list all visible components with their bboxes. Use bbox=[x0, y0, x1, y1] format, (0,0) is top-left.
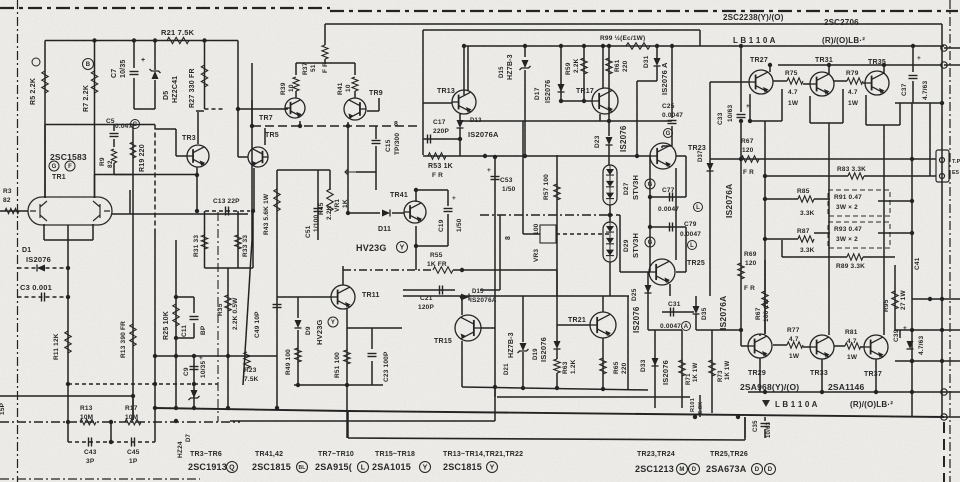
junction bbox=[910, 390, 914, 394]
resistor R25 bbox=[173, 304, 179, 326]
circle D bbox=[689, 464, 700, 475]
wire TR5 collector bbox=[264, 128, 266, 145]
wire bbox=[447, 190, 449, 206]
circle M bbox=[677, 464, 688, 475]
wire input stage top bbox=[45, 124, 155, 126]
junction bbox=[559, 99, 563, 103]
capacitor C19 bbox=[444, 208, 453, 210]
wire TR5 base bbox=[238, 156, 248, 158]
wire bbox=[744, 417, 746, 438]
wire D1 row bbox=[18, 267, 69, 269]
transistor TR29 bbox=[748, 334, 772, 358]
wire bbox=[650, 196, 686, 198]
circle Y2 bbox=[420, 462, 431, 473]
wire D21 column bbox=[522, 296, 524, 342]
junction bbox=[460, 268, 464, 272]
wire bbox=[324, 59, 326, 63]
diode D31 bbox=[654, 58, 661, 66]
junction bbox=[109, 440, 113, 444]
diode D23 bbox=[606, 137, 613, 145]
node output bbox=[941, 414, 947, 420]
transistor TR15 bbox=[455, 315, 481, 341]
capacitor C49 bbox=[273, 304, 282, 306]
wire y385 bbox=[294, 384, 383, 386]
wire C23 column bbox=[371, 328, 373, 349]
junction bbox=[648, 195, 652, 199]
junction bbox=[763, 237, 767, 241]
resistor R23 bbox=[244, 352, 250, 368]
wire bbox=[295, 63, 297, 75]
wire D5 bottom bbox=[154, 80, 156, 109]
transistor TR13 bbox=[452, 90, 476, 114]
resistor R9 bbox=[111, 149, 116, 163]
capacitor C25 bbox=[668, 120, 677, 122]
junction bbox=[693, 415, 697, 419]
wire TR23-TR25 base chain bbox=[649, 155, 651, 272]
wire bbox=[523, 233, 540, 235]
wire bbox=[346, 385, 348, 438]
resistor R65 bbox=[600, 358, 606, 374]
wire bbox=[912, 81, 914, 103]
wire bbox=[803, 83, 810, 85]
junction bbox=[748, 119, 752, 123]
resistor R53 bbox=[428, 153, 446, 159]
junction bbox=[940, 328, 944, 332]
wire feedback dashed bbox=[205, 210, 250, 212]
wire bbox=[930, 175, 936, 177]
capacitor C3 bbox=[41, 293, 43, 302]
capacitor C51 bbox=[314, 208, 323, 210]
wire bbox=[556, 373, 558, 388]
wire bbox=[764, 429, 766, 438]
junction bbox=[940, 101, 944, 105]
wire bbox=[662, 311, 694, 313]
transistor TR11 bbox=[331, 285, 355, 309]
resistor R63 bbox=[554, 359, 560, 373]
wire bbox=[676, 271, 686, 273]
circle BL bbox=[297, 462, 308, 473]
transistor TR25 bbox=[649, 259, 675, 285]
resistor R13 bbox=[80, 419, 96, 425]
capacitor C15 bbox=[372, 140, 381, 142]
wire x495 column bbox=[494, 157, 496, 421]
resistor R33 bbox=[235, 235, 241, 249]
wire oval emitter left bbox=[43, 224, 45, 240]
circle Y bbox=[397, 242, 408, 253]
wire bbox=[803, 346, 810, 348]
circle L bbox=[688, 241, 697, 250]
wire bbox=[636, 81, 638, 155]
wire +B rail y46 bbox=[464, 45, 944, 47]
wire rail y159 bbox=[710, 158, 936, 160]
wire bus y421 bbox=[230, 420, 495, 422]
wire D17 column bbox=[560, 46, 562, 101]
wire bbox=[864, 175, 930, 177]
junction bbox=[174, 419, 178, 423]
junction bbox=[601, 44, 605, 48]
wire bbox=[524, 46, 526, 57]
capacitor C bbox=[110, 133, 119, 135]
wire bbox=[297, 330, 299, 385]
wire bbox=[810, 122, 843, 124]
junction bbox=[195, 209, 199, 213]
wire TR17 collector bbox=[602, 46, 604, 88]
resistor R89 bbox=[847, 254, 863, 260]
wire 15P line bbox=[0, 395, 133, 397]
junction bbox=[582, 99, 586, 103]
wire C3 row bbox=[18, 296, 69, 298]
resistor R19 bbox=[130, 142, 136, 158]
wire bbox=[671, 126, 673, 146]
junction bbox=[763, 174, 767, 178]
diode D15 bbox=[461, 294, 469, 301]
wire bbox=[354, 63, 356, 75]
junction bbox=[910, 231, 914, 235]
wire bottom bus y408 a bbox=[155, 408, 348, 411]
wire bbox=[662, 145, 672, 147]
circle A bbox=[682, 322, 691, 331]
junction bbox=[940, 297, 944, 301]
junction bbox=[460, 295, 464, 299]
resistor R57 bbox=[554, 184, 560, 200]
wire bbox=[650, 226, 686, 228]
wire TR35 emitter bbox=[865, 95, 867, 125]
wire bbox=[750, 120, 782, 122]
junction bbox=[874, 390, 878, 394]
junction bbox=[910, 359, 914, 363]
junction bbox=[226, 406, 230, 410]
wire y299 bbox=[912, 298, 960, 300]
junction bbox=[174, 406, 178, 410]
wire right box edge bbox=[941, 24, 943, 417]
junction bbox=[226, 354, 230, 358]
junction bbox=[493, 385, 497, 389]
resistor R77 bbox=[787, 342, 803, 348]
wire y296 bbox=[403, 295, 629, 297]
junction bbox=[739, 119, 743, 123]
junction bbox=[153, 406, 157, 410]
junction bbox=[768, 63, 772, 67]
junction bbox=[66, 266, 70, 270]
zener diode D21 bbox=[520, 343, 527, 351]
wire bbox=[44, 125, 46, 199]
circle B bbox=[83, 59, 94, 70]
wire TR31 collector bbox=[828, 65, 830, 74]
wire TR17 emitter bbox=[599, 114, 601, 121]
wire bbox=[295, 91, 297, 98]
circle Y3 bbox=[487, 462, 498, 473]
wire bbox=[863, 82, 865, 84]
wire TR25 emitter bbox=[669, 284, 671, 296]
junction bbox=[582, 44, 586, 48]
junction bbox=[298, 124, 302, 128]
wire bbox=[129, 190, 131, 214]
diode D1 bbox=[37, 265, 45, 272]
wire R31 column bbox=[204, 211, 206, 268]
capacitor C7 bbox=[130, 71, 139, 73]
resistor R45 bbox=[327, 189, 333, 211]
wire TR9 emitter down bbox=[347, 122, 349, 213]
capacitor C35 bbox=[761, 423, 770, 425]
wire R39-R41 top bbox=[296, 62, 355, 64]
wire bbox=[834, 80, 847, 82]
wire bbox=[656, 66, 658, 81]
wire TR31 emitter bbox=[809, 96, 811, 123]
junction bbox=[910, 199, 914, 203]
circle D3 bbox=[765, 464, 776, 475]
wire D9 column bbox=[297, 297, 299, 318]
wire TR17 base wire bbox=[561, 100, 592, 102]
junction bbox=[414, 244, 418, 248]
wire bbox=[866, 124, 900, 126]
wire bbox=[463, 46, 465, 95]
wire TR35 collector bbox=[883, 65, 885, 73]
wiper arrow VR1 bbox=[345, 169, 356, 175]
wire bbox=[685, 227, 687, 272]
junction bbox=[462, 44, 466, 48]
wire y397 bbox=[497, 396, 690, 398]
diode stack D27 STV3H bbox=[603, 165, 617, 205]
capacitor C17 bbox=[427, 135, 429, 144]
zener diode D5 bbox=[152, 71, 159, 79]
wire bbox=[647, 272, 649, 330]
wire bbox=[378, 98, 380, 111]
resistor R5 bbox=[42, 71, 48, 93]
wire bus y438 bbox=[348, 438, 745, 440]
frame top dash-dot line right bbox=[330, 10, 958, 12]
capacitor C39 mark bbox=[907, 341, 914, 349]
frame top dash-dot line left bbox=[0, 7, 330, 9]
junction bbox=[66, 420, 70, 424]
wire bbox=[842, 89, 844, 123]
wire TR37 down bbox=[875, 359, 877, 392]
wire to D11 bbox=[350, 212, 380, 214]
wire x133 long column bbox=[132, 175, 134, 421]
resistor R39 bbox=[293, 77, 299, 91]
wire bbox=[277, 169, 330, 171]
wire bbox=[619, 215, 621, 272]
wire y126 dashed link bbox=[252, 125, 420, 127]
circle G bbox=[645, 179, 655, 189]
wire TR3 emitter bbox=[196, 167, 198, 211]
transistor TR31 bbox=[810, 72, 834, 96]
wire TR27 base bbox=[710, 81, 749, 83]
wire bbox=[648, 329, 682, 331]
junction bbox=[827, 63, 831, 67]
wire bbox=[878, 232, 912, 234]
wire bbox=[453, 269, 557, 271]
wire bbox=[609, 262, 611, 296]
junction bbox=[153, 382, 157, 386]
wire x277 column bbox=[276, 170, 278, 408]
junction bbox=[910, 157, 914, 161]
diode D33 bbox=[652, 358, 659, 366]
wire bbox=[67, 384, 69, 442]
resistor R11 bbox=[65, 331, 71, 353]
diode D17 bbox=[558, 84, 565, 92]
wire bbox=[155, 128, 176, 130]
dashed box R91 bbox=[828, 190, 890, 216]
wire bbox=[929, 103, 931, 176]
junction bbox=[346, 124, 350, 128]
wire y270 dash bbox=[343, 269, 433, 271]
wire bbox=[371, 361, 373, 385]
transistor TR33 bbox=[810, 335, 834, 359]
junction bbox=[192, 406, 196, 410]
wire bbox=[765, 175, 848, 177]
wire TR25 base bbox=[620, 271, 650, 273]
wire C25 column bbox=[671, 46, 673, 118]
wire x884 down bbox=[883, 125, 885, 335]
wire R9 bottom bbox=[113, 163, 115, 175]
wire R19 column bbox=[132, 125, 134, 175]
capacitor C77 bbox=[669, 193, 671, 202]
wire C19 top bbox=[416, 189, 448, 191]
junction bbox=[739, 44, 743, 48]
junction bbox=[670, 44, 674, 48]
junction bbox=[458, 137, 462, 141]
wire bbox=[609, 205, 611, 222]
wire box2 left drop bbox=[422, 30, 424, 155]
junction bbox=[911, 44, 915, 48]
transistor TR27 bbox=[749, 70, 773, 94]
wire y384 dashed bbox=[68, 383, 218, 385]
junction bbox=[66, 382, 70, 386]
transistor TR5 bbox=[248, 147, 268, 167]
wire under R9 bbox=[95, 174, 134, 176]
transistor TR35 bbox=[865, 71, 889, 95]
junction bbox=[739, 328, 743, 332]
circle L bbox=[694, 203, 703, 212]
resistor R87b bbox=[762, 291, 768, 309]
resistor R49 bbox=[295, 348, 301, 362]
wire bbox=[196, 110, 204, 112]
wire y356 bbox=[155, 355, 277, 357]
capacitor C21 bbox=[439, 286, 441, 295]
circle G bbox=[49, 161, 59, 171]
wire rail y65 bbox=[778, 64, 942, 66]
junction bbox=[131, 394, 135, 398]
wire R7 column bbox=[94, 41, 96, 199]
wire bbox=[459, 113, 461, 120]
wire C9 column bbox=[193, 356, 195, 408]
capacitor C33 bbox=[737, 114, 746, 116]
node bbox=[941, 62, 947, 68]
wire y121 rail bbox=[462, 120, 672, 122]
wire R95 column bbox=[894, 265, 896, 330]
junction bbox=[739, 157, 743, 161]
capacitor C11 BP bypass bbox=[176, 296, 194, 298]
wire TR9 base bbox=[367, 110, 379, 112]
wire bbox=[627, 296, 629, 389]
wire bbox=[814, 232, 830, 234]
wire input left bbox=[0, 210, 28, 212]
wire D23 column bbox=[608, 145, 610, 165]
wire R35 column bbox=[227, 268, 229, 408]
wire D31 column bbox=[656, 46, 658, 58]
resistor R83 bbox=[848, 173, 864, 179]
wire TR15 emitter bbox=[461, 341, 463, 387]
wire R59 column bbox=[583, 46, 585, 101]
wire TR29 emitter bbox=[759, 358, 761, 392]
wire box2 right drop bbox=[699, 30, 701, 46]
wire TR13 collector bbox=[467, 46, 469, 91]
wire TR15 collector bbox=[461, 297, 463, 315]
wire D19 column bbox=[556, 270, 558, 341]
circle L2 bbox=[358, 462, 369, 473]
junction bbox=[483, 154, 487, 158]
wire bbox=[522, 352, 524, 388]
wire box2 rail bbox=[423, 29, 700, 31]
junction bbox=[607, 119, 611, 123]
wire bbox=[740, 120, 742, 159]
wire TR7 emitter bbox=[299, 121, 301, 126]
junction bbox=[195, 173, 199, 177]
wire bbox=[347, 411, 349, 438]
transistor TR37 bbox=[864, 335, 888, 359]
wire bbox=[695, 296, 697, 306]
wire TR13 base bbox=[423, 102, 452, 104]
wire x710 column bbox=[709, 82, 711, 296]
dashed box R93 bbox=[828, 222, 890, 248]
wire bbox=[522, 215, 524, 234]
junction bbox=[192, 354, 196, 358]
resistor R67 bbox=[741, 156, 759, 162]
wire TR5 emitter down bbox=[253, 168, 255, 211]
wire bbox=[895, 102, 942, 104]
wire x238 column bbox=[237, 41, 239, 158]
resistor R35 bbox=[225, 295, 231, 311]
capacitor C23 bbox=[368, 353, 377, 355]
junction bbox=[635, 154, 639, 158]
capacitor C37 bbox=[909, 75, 918, 77]
wire bbox=[676, 155, 686, 157]
wire TR21 base bbox=[557, 324, 590, 326]
junction bbox=[910, 328, 914, 332]
wire TR7 base bbox=[238, 108, 288, 110]
wire bottom bus y408 b bbox=[348, 411, 944, 417]
wire x557 column bbox=[556, 155, 558, 296]
diode D25 bbox=[645, 285, 652, 293]
capacitor C9 bbox=[190, 366, 199, 368]
transistor TR21 bbox=[590, 312, 616, 338]
wire bbox=[861, 346, 864, 348]
circle Q bbox=[227, 462, 238, 473]
junction bbox=[559, 44, 563, 48]
junction bbox=[109, 420, 113, 424]
zener diode D7 bbox=[191, 390, 198, 398]
wire bbox=[416, 245, 448, 247]
wire bbox=[764, 417, 766, 421]
wire bbox=[834, 345, 845, 347]
wire R45 column bbox=[329, 170, 331, 190]
wire bbox=[130, 213, 248, 215]
wire R5 column bbox=[44, 41, 46, 199]
wire bbox=[899, 103, 901, 125]
capacitor C31 bbox=[670, 308, 672, 317]
capacitor C11 bbox=[190, 316, 199, 318]
junction bbox=[601, 387, 605, 391]
wire D33 column bbox=[654, 330, 656, 408]
wire C7 bottom bbox=[133, 78, 135, 109]
junction bbox=[92, 38, 96, 42]
resistor R3 bbox=[5, 208, 19, 213]
wire x176 column bbox=[175, 240, 177, 408]
circle G bbox=[645, 237, 655, 247]
wire bbox=[764, 260, 766, 334]
frame left dash-dot line bbox=[17, 0, 19, 482]
junction bbox=[174, 336, 178, 340]
